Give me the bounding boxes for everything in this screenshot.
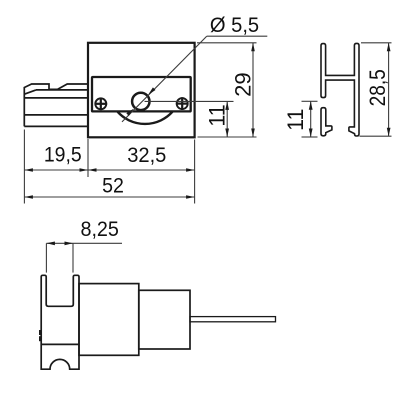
hole circle (Ø5,5) [132, 93, 149, 110]
extension line hole axis y=101.4 [145, 100, 234, 102]
fork bracket [41, 275, 79, 369]
svg-text:11: 11 [205, 104, 230, 126]
screw left [95, 98, 108, 111]
H profile body [321, 43, 359, 136]
svg-text:11: 11 [283, 109, 308, 131]
svg-text:52: 52 [102, 174, 124, 197]
screw right [176, 97, 189, 110]
svg-text:19,5: 19,5 [44, 144, 82, 167]
main block [79, 284, 139, 356]
dimension 28,5 [361, 42, 392, 44]
side bumps [39, 330, 41, 335]
svg-text:29: 29 [230, 72, 255, 97]
svg-text:Ø 5,5: Ø 5,5 [210, 14, 259, 37]
svg-text:28,5: 28,5 [365, 69, 390, 106]
fork cross line [41, 343, 79, 345]
H profile lower-left flange [321, 108, 332, 136]
body outline [88, 43, 195, 138]
dimension 8,25 [45, 243, 47, 272]
extension line left x=24.4 [23, 130, 25, 204]
end block [139, 290, 190, 349]
extension line right x=194.6 [194, 140, 196, 204]
extension line bottom right y=137 [198, 136, 257, 138]
extension line middle x=88 [87, 139, 89, 177]
pin rod [190, 317, 276, 322]
svg-text:8,25: 8,25 [80, 218, 119, 241]
mounting plate [92, 77, 191, 111]
svg-text:32,5: 32,5 [127, 144, 166, 167]
rail profile (left attachment) [24, 84, 88, 126]
dimension 11 line [226, 101, 228, 137]
dimension 29 line [252, 43, 254, 137]
dimension 11 (profile) [302, 100, 318, 102]
dimension 19,5 and 32,5 line [24, 169, 194, 171]
extension line top right y=42.8 [197, 42, 257, 44]
dimension 52 line [24, 196, 194, 198]
roller arc [117, 112, 172, 124]
leader line Ø5,5 [122, 36, 207, 122]
